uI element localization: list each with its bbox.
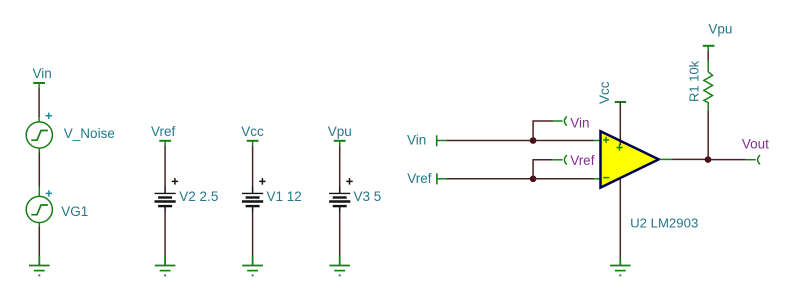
battery V3 (329, 178, 353, 206)
svg-text:Vcc: Vcc (241, 124, 264, 139)
svg-text:U2 LM2903: U2 LM2903 (630, 216, 698, 231)
source V_Noise (26, 113, 52, 149)
wire (164, 141, 166, 193)
junction (705, 156, 712, 163)
ground (329, 256, 350, 275)
tag Vin (564, 116, 589, 131)
junction (530, 176, 537, 183)
node Vin (top left) (33, 66, 52, 83)
source VG1 (26, 190, 52, 222)
wire (38, 148, 40, 196)
svg-text:R1 10k: R1 10k (687, 60, 702, 102)
wire (660, 158, 708, 160)
node Vref label (151, 124, 176, 141)
ground (242, 256, 263, 275)
node Vcc supply label (rotated) (597, 81, 626, 104)
wire (533, 140, 600, 142)
svg-text:Vin: Vin (570, 116, 589, 131)
svg-text:Vref: Vref (570, 153, 595, 168)
svg-text:Vcc: Vcc (597, 81, 612, 104)
svg-text:V_Noise: V_Noise (64, 126, 115, 141)
svg-text:Vref: Vref (151, 124, 176, 139)
svg-text:Vin: Vin (33, 66, 52, 81)
battery V2 (155, 178, 179, 206)
wire (619, 142, 621, 145)
op-amp U2 (601, 131, 659, 187)
node Vpu label (328, 124, 352, 141)
wire (533, 121, 563, 141)
wire (38, 83, 40, 122)
wire (707, 46, 709, 61)
ground (610, 266, 631, 276)
wire (446, 178, 533, 180)
svg-text:V1 12: V1 12 (267, 189, 302, 204)
svg-text:V2 2.5: V2 2.5 (179, 189, 218, 204)
wire (708, 159, 756, 161)
svg-text:Vref: Vref (407, 171, 432, 186)
junction (530, 137, 537, 144)
battery V1 (242, 178, 266, 206)
wire (619, 178, 621, 258)
svg-text:VG1: VG1 (61, 204, 88, 219)
wire (339, 141, 341, 193)
node Vpu pullup label (703, 21, 733, 46)
tag Vout (742, 136, 769, 164)
wire (38, 223, 40, 256)
node Vin input terminal (407, 132, 446, 147)
svg-text:Vout: Vout (742, 136, 769, 151)
ground (29, 256, 50, 275)
wire (707, 110, 709, 159)
wire (339, 207, 341, 256)
svg-text:Vpu: Vpu (328, 124, 352, 139)
svg-text:Vpu: Vpu (708, 21, 732, 36)
wire (252, 141, 254, 193)
wire (164, 207, 166, 256)
node Vref input terminal (407, 171, 446, 186)
resistor R1 (704, 61, 713, 111)
svg-text:V3 5: V3 5 (354, 189, 382, 204)
node Vcc label (241, 124, 264, 141)
ground (155, 256, 176, 275)
wire (619, 102, 621, 141)
svg-text:Vin: Vin (407, 132, 426, 147)
wire (619, 258, 621, 266)
tag Vref (564, 153, 594, 168)
wire (446, 140, 533, 142)
wire (533, 160, 563, 179)
wire (533, 178, 600, 180)
wire (252, 207, 254, 256)
